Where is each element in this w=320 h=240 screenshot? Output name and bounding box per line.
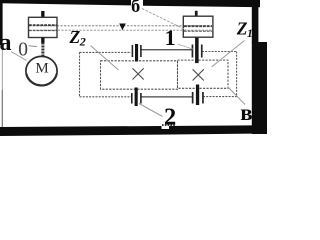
shaft 1 lower part xyxy=(196,85,199,106)
motor M circle xyxy=(26,56,57,85)
bearing top shaft 2 xyxy=(132,45,134,57)
leader from label 0 to shaft xyxy=(29,45,38,48)
svg-text:2: 2 xyxy=(164,104,176,131)
belt direction arrow xyxy=(119,24,126,31)
leader from label z2 to gear xyxy=(91,46,119,71)
border top bar right segment xyxy=(143,0,260,7)
shaft 2 output upper stub xyxy=(135,44,138,62)
border right black block lower xyxy=(252,42,267,134)
border left bar middle faint segment xyxy=(2,45,3,90)
border bottom bar xyxy=(0,125,252,136)
pulley P1 hub bottom tick xyxy=(41,38,44,44)
pulley P2 hub top tick xyxy=(195,11,198,17)
leader from label 2 to shaft 2 xyxy=(139,104,163,117)
svg-text:1: 1 xyxy=(165,25,176,50)
cross mark on shaft 1 xyxy=(193,69,204,80)
cross mark on shaft 2 xyxy=(133,68,144,79)
motor shaft 0 xyxy=(41,43,44,58)
pulley P1 hub top tick xyxy=(41,11,44,18)
border left bar bottom segment xyxy=(2,90,3,127)
bearing top shaft 1 xyxy=(192,45,194,58)
belt inside pulley P1 xyxy=(29,24,57,26)
leader from label a to motor xyxy=(11,52,27,61)
border right bar upper xyxy=(252,0,259,43)
pulley P1 on motor shaft xyxy=(29,17,58,37)
leader from label 1 to shaft 1 xyxy=(178,44,195,50)
gearbox housing xyxy=(80,52,237,97)
border left bar top segment xyxy=(0,0,3,45)
pulley P2 on gearbox input shaft xyxy=(183,16,213,37)
svg-text:б: б xyxy=(131,0,140,17)
dotted mark under label 2 xyxy=(162,124,175,126)
leader from label 6 to belt pulley xyxy=(142,9,186,31)
shaft 2 output lower stub xyxy=(135,88,138,107)
svg-text:a: a xyxy=(0,30,12,56)
leader from label в to housing xyxy=(228,87,245,105)
motor M circle bottom emphasis xyxy=(26,56,57,86)
svg-text:M: M xyxy=(35,61,48,77)
shaft 1 input upper part xyxy=(195,38,199,64)
belt inside pulley P2 xyxy=(184,25,212,27)
bearing bottom shaft 1 xyxy=(192,92,194,104)
belt upper run xyxy=(29,25,212,27)
border bottom bar notch xyxy=(162,126,170,129)
svg-text:0: 0 xyxy=(18,40,28,61)
border top bar left segment xyxy=(0,0,131,5)
gear z2 wheel on shaft 2 xyxy=(101,61,178,89)
belt lower run xyxy=(29,29,212,31)
leader from label z1 to gear xyxy=(212,41,245,68)
svg-text:в: в xyxy=(240,100,252,125)
bearing bottom shaft 2 xyxy=(131,93,133,104)
gear z1 pinion on shaft 1 xyxy=(178,60,229,88)
